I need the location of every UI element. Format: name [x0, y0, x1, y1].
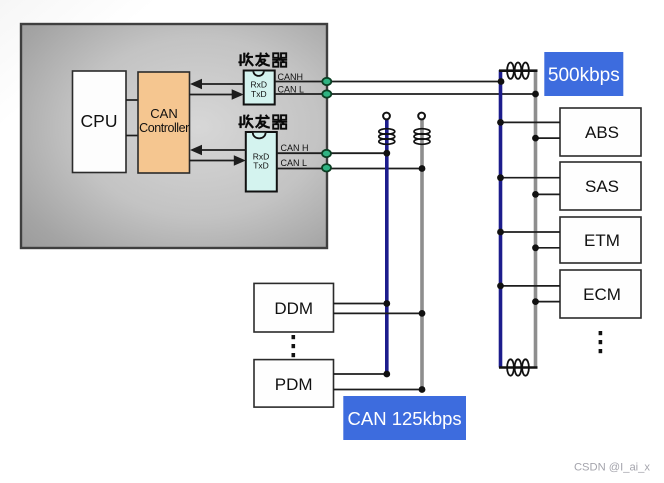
speed label CAN 125kbps: [343, 396, 466, 440]
ellipsis more nodes (DDM/PDM column): [292, 335, 296, 357]
open terminal circle (125k low): [418, 113, 425, 120]
junction dot ETM high: [497, 229, 504, 236]
stub wire SAS low: [536, 193, 561, 195]
wire RxD U3 to controller with left arrow: [190, 145, 246, 156]
wire CAN L upper to 500k bus low: [275, 93, 536, 95]
termination resistor top (500k bus): [499, 62, 538, 78]
CAN Controller U1: [138, 72, 190, 173]
wire CPU to CAN controller (lower): [126, 135, 138, 137]
junction dot CANH on 500k high bus: [498, 78, 505, 85]
CPU box: [73, 71, 127, 173]
connector bead CANH (green): [322, 78, 331, 85]
junction dot ABS high: [497, 119, 504, 126]
ECU module gray enclosure: [21, 24, 327, 248]
open terminal circle (125k high): [383, 113, 390, 120]
top-left corner sheen: [0, 0, 200, 160]
termination coil on 125k high line: [379, 129, 395, 145]
junction dot CAN L lower on 125k low bus: [419, 165, 426, 172]
125k bus high line (navy): [385, 119, 389, 374]
junction dot DDM low: [419, 310, 426, 317]
connector bead CAN H lower (green): [322, 150, 331, 157]
junction dot ECM low: [532, 298, 539, 305]
junction dot CANL on 500k low bus: [532, 91, 539, 98]
wire DDM high: [334, 303, 387, 305]
termination coil on 125k low line: [414, 129, 430, 145]
wire RxD U2 to controller with left arrow: [190, 79, 244, 90]
wire CANH upper to 500k bus high: [275, 81, 501, 83]
connector bead CANL (green): [322, 90, 331, 97]
label 收发器 upper transceiver: [238, 53, 287, 67]
node ETM box: [560, 217, 641, 263]
junction dot ETM low: [532, 244, 539, 251]
transceiver U3 (lower): [246, 132, 277, 192]
stub wire SAS high: [501, 177, 561, 179]
node DDM box: [254, 283, 334, 332]
node ECM box: [560, 270, 641, 318]
wire TxD controller to U2 with right arrow: [190, 89, 244, 100]
500k bus low line (gray): [534, 70, 538, 368]
500k bus high line (navy): [499, 70, 503, 368]
stub wire ETM high: [501, 231, 561, 233]
node ABS box: [560, 108, 641, 156]
stub wire ABS low: [536, 137, 561, 139]
wire DDM low: [334, 312, 423, 314]
junction dot PDM low: [419, 386, 426, 393]
junction dot PDM high: [383, 371, 390, 378]
connector bead CAN L lower (green): [322, 164, 331, 171]
wire CPU to CAN controller (upper): [126, 99, 138, 101]
termination resistor bottom (500k bus): [499, 359, 538, 375]
wire PDM high: [334, 373, 387, 375]
wire TxD controller to U3 with right arrow: [190, 155, 246, 166]
wire CAN L lower to 125k bus low: [277, 168, 422, 170]
125k bus low line (gray): [420, 119, 424, 390]
wire PDM low: [334, 389, 423, 391]
stub wire ECM low: [536, 301, 561, 303]
junction dot SAS low: [532, 191, 539, 198]
transceiver U2 (upper): [244, 71, 275, 105]
speed label 500kbps: [544, 52, 623, 96]
stub wire ECM high: [501, 285, 561, 287]
wire CAN H lower to 125k bus high: [277, 152, 387, 154]
stub wire ABS high: [501, 121, 561, 123]
junction dot CAN H lower on 125k high bus: [383, 150, 390, 157]
junction dot ECM high: [497, 283, 504, 290]
junction dot DDM high: [383, 300, 390, 307]
ellipsis more nodes (right column): [599, 331, 603, 353]
junction dot SAS high: [497, 174, 504, 181]
stub wire ETM low: [536, 247, 561, 249]
node SAS box: [560, 162, 641, 210]
node PDM box: [254, 360, 334, 408]
label 收发器 lower transceiver: [238, 115, 287, 129]
junction dot ABS low: [532, 135, 539, 142]
